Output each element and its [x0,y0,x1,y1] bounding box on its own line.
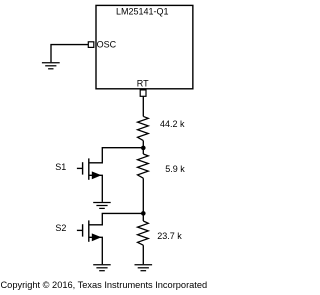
svg-text:44.2 k: 44.2 k [160,119,185,129]
channel bar [88,220,90,241]
wire R3 to ground [142,245,144,264]
ground (R3) [135,265,153,271]
pin OSC square [88,42,94,48]
source arrow [92,233,102,241]
resistor R2 5.9 k [138,154,149,178]
source lead and wire to ground [89,237,102,264]
svg-text:Copyright © 2016, Texas Instru: Copyright © 2016, Texas Instruments Inco… [1,280,208,290]
svg-text:23.7 k: 23.7 k [157,231,182,241]
svg-text:S1: S1 [55,162,66,172]
channel bar [88,158,90,179]
pin RT square [140,90,146,96]
node A junction dot [141,146,146,151]
wire node A to R2 [142,148,144,154]
gate bar [82,162,84,174]
svg-text:S2: S2 [55,223,66,233]
wire R2 to node B [142,178,144,213]
transistor S1 (NMOS switch) [77,158,102,202]
wire RT to R1 [142,97,144,117]
svg-text:LM25141-Q1: LM25141-Q1 [116,6,169,16]
wire R1 to node A [142,141,144,148]
gate lead [77,167,83,169]
wire node A to S1 drain [89,148,143,163]
source lead and wire to ground [89,175,102,202]
transistor S2 (NMOS switch) [77,220,102,264]
source arrow [92,171,102,179]
wire node B to R3 [142,213,144,221]
ground (S1 source) [93,203,111,209]
gate bar [82,224,84,236]
resistor R1 44.2 k [138,116,149,140]
IC U1 LM25141-Q1 box [96,5,193,88]
svg-text:RT: RT [137,79,149,89]
resistor R3 23.7 k [138,221,149,245]
ground (S2 source) [93,265,111,271]
gate lead [77,229,83,231]
svg-text:OSC: OSC [97,39,117,49]
wire OSC to ground [51,45,88,63]
node B junction dot [141,211,146,216]
ground (OSC) [42,63,60,69]
wire node B to S2 drain [89,213,143,224]
svg-text:5.9 k: 5.9 k [165,164,185,174]
